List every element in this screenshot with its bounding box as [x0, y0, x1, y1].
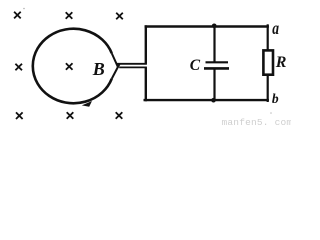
field cross x5 (middle, inside coil) [66, 63, 73, 70]
field cross x8 (bottom-right) [116, 112, 123, 119]
junction node top [212, 24, 217, 29]
capacitor C1 bottom wire [213, 69, 215, 100]
speck top-left [23, 8, 25, 10]
bottom lead wire [119, 66, 147, 68]
coil upper lead (twist) [112, 53, 119, 68]
resistor R1 bottom wire [267, 76, 269, 102]
resistor R1 body [263, 50, 273, 74]
bottom rail wire [144, 99, 269, 101]
svg-text:a: a [272, 18, 279, 38]
svg-text:b: b [272, 91, 279, 106]
top rail wire [145, 25, 269, 27]
capacitor C1 top plate [206, 61, 229, 63]
resistor R1 top wire [267, 24, 269, 49]
field cross x1 (top-left) [14, 12, 21, 19]
svg-text:manfen5. com: manfen5. com [222, 117, 292, 127]
capacitor C1 top wire [213, 27, 215, 63]
coil loop (circular conductor in field) [33, 29, 112, 104]
left vertical wire upper [145, 25, 147, 64]
coil current arrow [82, 101, 92, 107]
field cross x4 (middle-left) [15, 64, 22, 71]
field cross x6 (bottom-left) [16, 112, 23, 119]
left vertical wire lower [145, 67, 147, 101]
svg-text:C: C [190, 57, 201, 74]
svg-text:R: R [275, 54, 287, 71]
junction node bottom [211, 98, 216, 103]
field cross x3 (top-right) [116, 13, 123, 20]
coil lower lead (twist) [112, 63, 120, 78]
svg-text:B: B [92, 59, 105, 79]
field cross x7 (bottom-middle) [67, 112, 74, 119]
field cross x2 (top-middle) [66, 12, 73, 19]
speck bottom-right [270, 112, 272, 114]
top lead wire [116, 63, 147, 65]
capacitor C1 bottom plate [204, 67, 229, 70]
